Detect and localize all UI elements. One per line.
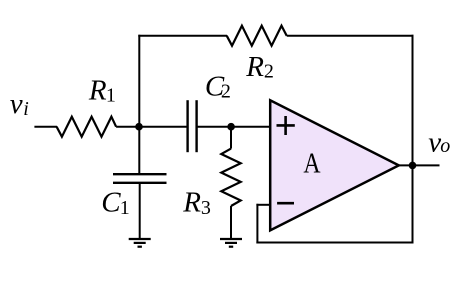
node A xyxy=(135,123,143,131)
svg-text:1: 1 xyxy=(106,84,116,106)
svg-text:o: o xyxy=(440,135,450,157)
svg-text:2: 2 xyxy=(221,81,231,103)
label C1 xyxy=(101,187,130,219)
wire C2 to node B xyxy=(197,126,232,128)
label vi xyxy=(10,88,29,120)
wire node A up to top rail xyxy=(138,35,140,127)
svg-text:1: 1 xyxy=(120,197,130,219)
op-amp plus input symbol xyxy=(277,116,295,135)
node B xyxy=(227,123,235,131)
svg-text:R: R xyxy=(245,51,264,83)
wire node B to opamp plus input xyxy=(231,126,270,128)
wire input vi segment xyxy=(34,126,57,128)
resistor R1 xyxy=(57,117,117,137)
capacitor C2 xyxy=(188,100,197,152)
wire top rail right segment xyxy=(287,35,414,37)
wire opamp output xyxy=(399,164,440,166)
op-amp U1 triangle xyxy=(270,100,399,230)
wire node A down to C1 xyxy=(138,127,140,175)
op-amp minus input symbol xyxy=(277,202,294,205)
resistor R3 xyxy=(221,149,240,206)
svg-text:R: R xyxy=(88,75,107,107)
wire R1 to node A xyxy=(116,126,139,128)
svg-text:i: i xyxy=(23,98,29,120)
resistor R2 xyxy=(227,26,287,46)
svg-text:2: 2 xyxy=(264,61,274,83)
wire C1 to ground xyxy=(139,183,141,239)
ground below R3 xyxy=(220,239,242,247)
wire minus feedback vertical xyxy=(256,204,258,244)
label R3 xyxy=(182,187,211,219)
wire node B down to R3 xyxy=(230,127,232,149)
svg-text:R: R xyxy=(182,187,201,219)
label C2 xyxy=(205,71,231,103)
node vo xyxy=(409,162,417,170)
wire right vertical feedback xyxy=(412,35,414,244)
wire node A to C2 xyxy=(139,126,188,128)
svg-text:A: A xyxy=(303,148,320,180)
wire R3 to ground xyxy=(230,206,232,239)
label R2 xyxy=(245,51,274,83)
wire bottom feedback horizontal xyxy=(256,242,413,244)
label R1 xyxy=(88,75,116,107)
wire minus input stub xyxy=(256,204,270,206)
wire top rail left segment xyxy=(138,35,227,37)
label vo xyxy=(428,126,450,158)
ground below C1 xyxy=(129,239,151,247)
svg-text:C: C xyxy=(101,187,121,219)
svg-text:3: 3 xyxy=(201,197,211,219)
svg-text:v: v xyxy=(10,88,23,120)
capacitor C1 xyxy=(113,174,167,183)
